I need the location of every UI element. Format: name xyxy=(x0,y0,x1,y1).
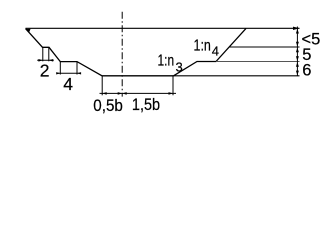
svg-text:6: 6 xyxy=(302,62,311,80)
svg-text:0,5b: 0,5b xyxy=(93,97,123,115)
svg-text:1:n: 1:n xyxy=(194,37,211,54)
svg-text:3: 3 xyxy=(176,60,183,75)
svg-text:1:n: 1:n xyxy=(158,53,175,70)
svg-text:1,5b: 1,5b xyxy=(132,96,160,114)
svg-text:2: 2 xyxy=(40,60,50,80)
svg-text:4: 4 xyxy=(212,44,219,59)
svg-text:4: 4 xyxy=(63,74,73,94)
